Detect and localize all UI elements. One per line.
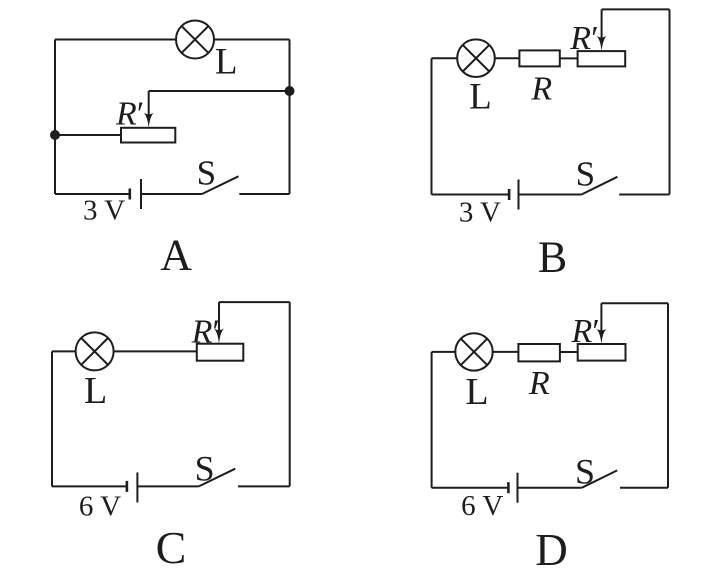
switch S blade (D) [582, 470, 617, 487]
svg-text:L: L [215, 41, 238, 82]
wire A top-right segment [214, 39, 290, 41]
wire B switch to corner [619, 194, 669, 196]
wire B R to R' [560, 57, 578, 59]
svg-text:S: S [575, 452, 595, 492]
wire D right vertical [667, 303, 669, 487]
wire B lamp left lead [432, 57, 458, 59]
wire C switch to corner [238, 485, 290, 487]
wire D top horizontal [601, 302, 668, 304]
battery 3V long plate (A) [140, 179, 142, 209]
node A right junction [286, 87, 294, 95]
svg-text:A: A [160, 231, 192, 280]
wire B top horizontal [602, 8, 670, 10]
lamp L (B) [457, 39, 495, 77]
battery 3V short plate (B) [508, 189, 511, 200]
svg-text:R′: R′ [569, 20, 597, 57]
wire D battery to switch [518, 487, 582, 489]
svg-text:R′: R′ [571, 313, 599, 350]
wire A switch to corner [239, 193, 289, 195]
resistor R (B) [519, 50, 559, 66]
wire B bottom-left segment [432, 194, 510, 196]
battery 6V long plate (D) [517, 473, 519, 503]
wire A left vertical [54, 40, 56, 195]
wire A right vertical [289, 40, 291, 195]
svg-text:R′: R′ [191, 314, 219, 351]
resistor R (D) [518, 344, 560, 361]
wire C wiper vertical with arrow [214, 302, 224, 344]
node A left junction [51, 131, 59, 139]
wire D switch to corner [620, 487, 668, 489]
wire B right vertical [669, 9, 671, 194]
svg-text:L: L [469, 76, 492, 117]
svg-text:6 V: 6 V [461, 490, 503, 522]
battery 6V short plate (C) [126, 481, 129, 492]
svg-text:S: S [195, 448, 215, 488]
wire A bottom-left segment [55, 193, 130, 195]
wire D wiper vertical with arrow [596, 303, 606, 344]
wire B wiper vertical with arrow [596, 9, 606, 51]
wire D lamp left lead [432, 351, 456, 353]
wire C lamp to rheostat [114, 350, 197, 352]
wire A wiper horizontal [149, 90, 290, 92]
wire A rheostat left lead [55, 134, 121, 136]
wire B lamp to R [495, 57, 520, 59]
wire D lamp to R [493, 351, 519, 353]
wire C battery to switch [137, 485, 198, 487]
wire B left vertical [431, 58, 433, 194]
wire A top-left segment [55, 39, 176, 41]
wire A battery to switch [141, 193, 202, 195]
switch S blade (B) [582, 177, 618, 195]
battery 6V long plate (C) [136, 472, 138, 502]
lamp L (C) [76, 332, 114, 370]
svg-text:L: L [465, 371, 488, 413]
svg-text:B: B [538, 232, 567, 281]
svg-text:R′: R′ [115, 96, 143, 133]
rheostat R' (A) [121, 128, 175, 143]
wire C left vertical [51, 351, 53, 486]
battery 6V short plate (D) [507, 482, 510, 493]
svg-text:L: L [84, 370, 107, 412]
lamp L (D) [455, 333, 492, 370]
svg-text:S: S [576, 155, 595, 194]
rheostat R' (C) [197, 344, 244, 361]
svg-text:6 V: 6 V [79, 491, 121, 523]
svg-text:S: S [197, 153, 216, 192]
svg-text:3 V: 3 V [83, 195, 125, 227]
wire D R to R' [560, 351, 578, 353]
switch S blade (A) [202, 176, 239, 194]
switch S blade (C) [199, 469, 235, 487]
svg-text:R: R [528, 365, 550, 402]
rheostat R' (B) [578, 51, 626, 66]
svg-text:3 V: 3 V [459, 197, 501, 229]
wire C top horizontal [219, 301, 290, 303]
svg-text:C: C [156, 522, 187, 573]
rheostat R' (D) [578, 344, 626, 361]
wire D left vertical [431, 352, 433, 488]
battery 3V short plate (A) [129, 189, 132, 200]
wire D bottom-left segment [432, 487, 509, 489]
wire A wiper vertical with arrow [144, 91, 154, 128]
wire C right vertical [289, 302, 291, 486]
wire C lamp left lead [52, 350, 76, 352]
svg-text:D: D [535, 525, 568, 575]
lamp L (A) [176, 21, 214, 59]
wire C bottom-left segment [52, 485, 127, 487]
svg-text:R: R [530, 71, 552, 108]
wire B battery to switch [519, 194, 582, 196]
battery 3V long plate (B) [518, 180, 520, 210]
